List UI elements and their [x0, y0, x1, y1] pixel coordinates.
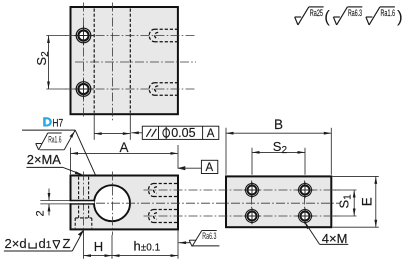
- dimension S2 (above side view): [252, 139, 305, 175]
- svg-text:E: E: [360, 197, 375, 206]
- svg-text:4×M: 4×M: [322, 231, 348, 246]
- svg-text:H7: H7: [52, 117, 63, 129]
- svg-text:A: A: [207, 128, 215, 140]
- surface finish Ra1.6 flag: [36, 130, 75, 150]
- svg-text:): ): [397, 7, 403, 26]
- tapped hole M top-right (side view): [297, 182, 314, 199]
- counterbored hole top-left (top view): [75, 26, 94, 45]
- tapped hole M bottom-left (side view): [244, 208, 261, 225]
- centerline row1 spanning views: [144, 189, 340, 191]
- svg-text:A: A: [206, 162, 214, 174]
- dimension 2 (slit): [35, 189, 51, 217]
- centerline middle (top view): [75, 61, 196, 63]
- bore circle D (front view): [94, 185, 130, 221]
- svg-text:2×MA: 2×MA: [27, 152, 61, 167]
- centerline bore axis (top view): [112, 3, 114, 121]
- arrowhead on Ra1.6 leader: [70, 132, 75, 138]
- hidden tapped hole row1 (front view right): [149, 184, 178, 197]
- column centerlines (side view): [251, 181, 253, 226]
- parallelism feature control frame: [131, 126, 219, 140]
- dimension A (between views): [71, 140, 179, 174]
- hidden tapped hole lower (top view): [149, 83, 177, 95]
- dimension B (above side view): [226, 117, 331, 175]
- tapped hole M top-left (side view): [244, 182, 261, 199]
- svg-text:(: (: [324, 7, 330, 26]
- tapped hole M bottom-right (side view): [297, 208, 314, 225]
- centerline hole row 2 (top view): [66, 88, 197, 90]
- svg-text:Ra1.6: Ra1.6: [381, 8, 396, 18]
- label 2xMA: [26, 152, 82, 175]
- dimension D bore (below top view): [94, 115, 130, 140]
- hidden tapped hole row2 (front view right): [149, 210, 178, 223]
- hole column centerline (front view): [83, 172, 85, 230]
- slit (front view): [40, 201, 94, 204]
- svg-text:Ra6.3: Ra6.3: [202, 231, 216, 241]
- svg-text:Ra1.6: Ra1.6: [48, 134, 61, 144]
- bore D hidden lines in top view: [93, 9, 95, 113]
- svg-text:Z: Z: [63, 236, 71, 251]
- svg-text:A: A: [120, 140, 129, 155]
- counterbored hole bottom-left (top view): [75, 79, 94, 98]
- dimension E (far right of side view): [333, 176, 379, 227]
- surface finish Ra6.3 flag (bottom): [179, 231, 220, 247]
- side view block (view 3): [226, 176, 331, 227]
- svg-text:H: H: [94, 239, 103, 254]
- dimension S2 (top view, left): [34, 36, 67, 90]
- centerline hole row 1 (top view): [66, 35, 197, 37]
- dimension S1 (right of side view): [333, 190, 357, 216]
- label 4xM: [305, 222, 349, 246]
- hidden hole d lines (front view left): [78, 177, 80, 218]
- svg-text:2: 2: [35, 210, 47, 216]
- bore vertical centerline: [112, 172, 114, 236]
- front view block (view 2): [71, 176, 179, 230]
- datum A box: [177, 160, 217, 174]
- top view block (view 1): [71, 7, 178, 114]
- surface finish note Ra1.6 (top right): [366, 7, 395, 25]
- dimension H and h (below front view): [84, 230, 179, 259]
- surface finish note Ra25 (top right): [295, 7, 324, 25]
- svg-text:0.05: 0.05: [171, 126, 195, 140]
- svg-text:2×d: 2×d: [5, 236, 27, 251]
- centerline hole column (top view): [83, 3, 85, 119]
- centerline middle spanning views: [96, 202, 340, 204]
- hidden tapped hole upper (top view): [149, 29, 177, 41]
- svg-text:Ra25: Ra25: [310, 8, 323, 18]
- centerline row2 spanning views: [144, 215, 340, 217]
- hidden counterbore d1 (front view bottom-left): [74, 218, 76, 228]
- label D H7: [22, 117, 101, 187]
- label 2xd counterbore d1 depth Z: [4, 230, 84, 252]
- surface finish note Ra6.3 (top right): [333, 7, 362, 25]
- svg-text:Ra6.3: Ra6.3: [348, 8, 362, 18]
- svg-text:B: B: [274, 117, 283, 132]
